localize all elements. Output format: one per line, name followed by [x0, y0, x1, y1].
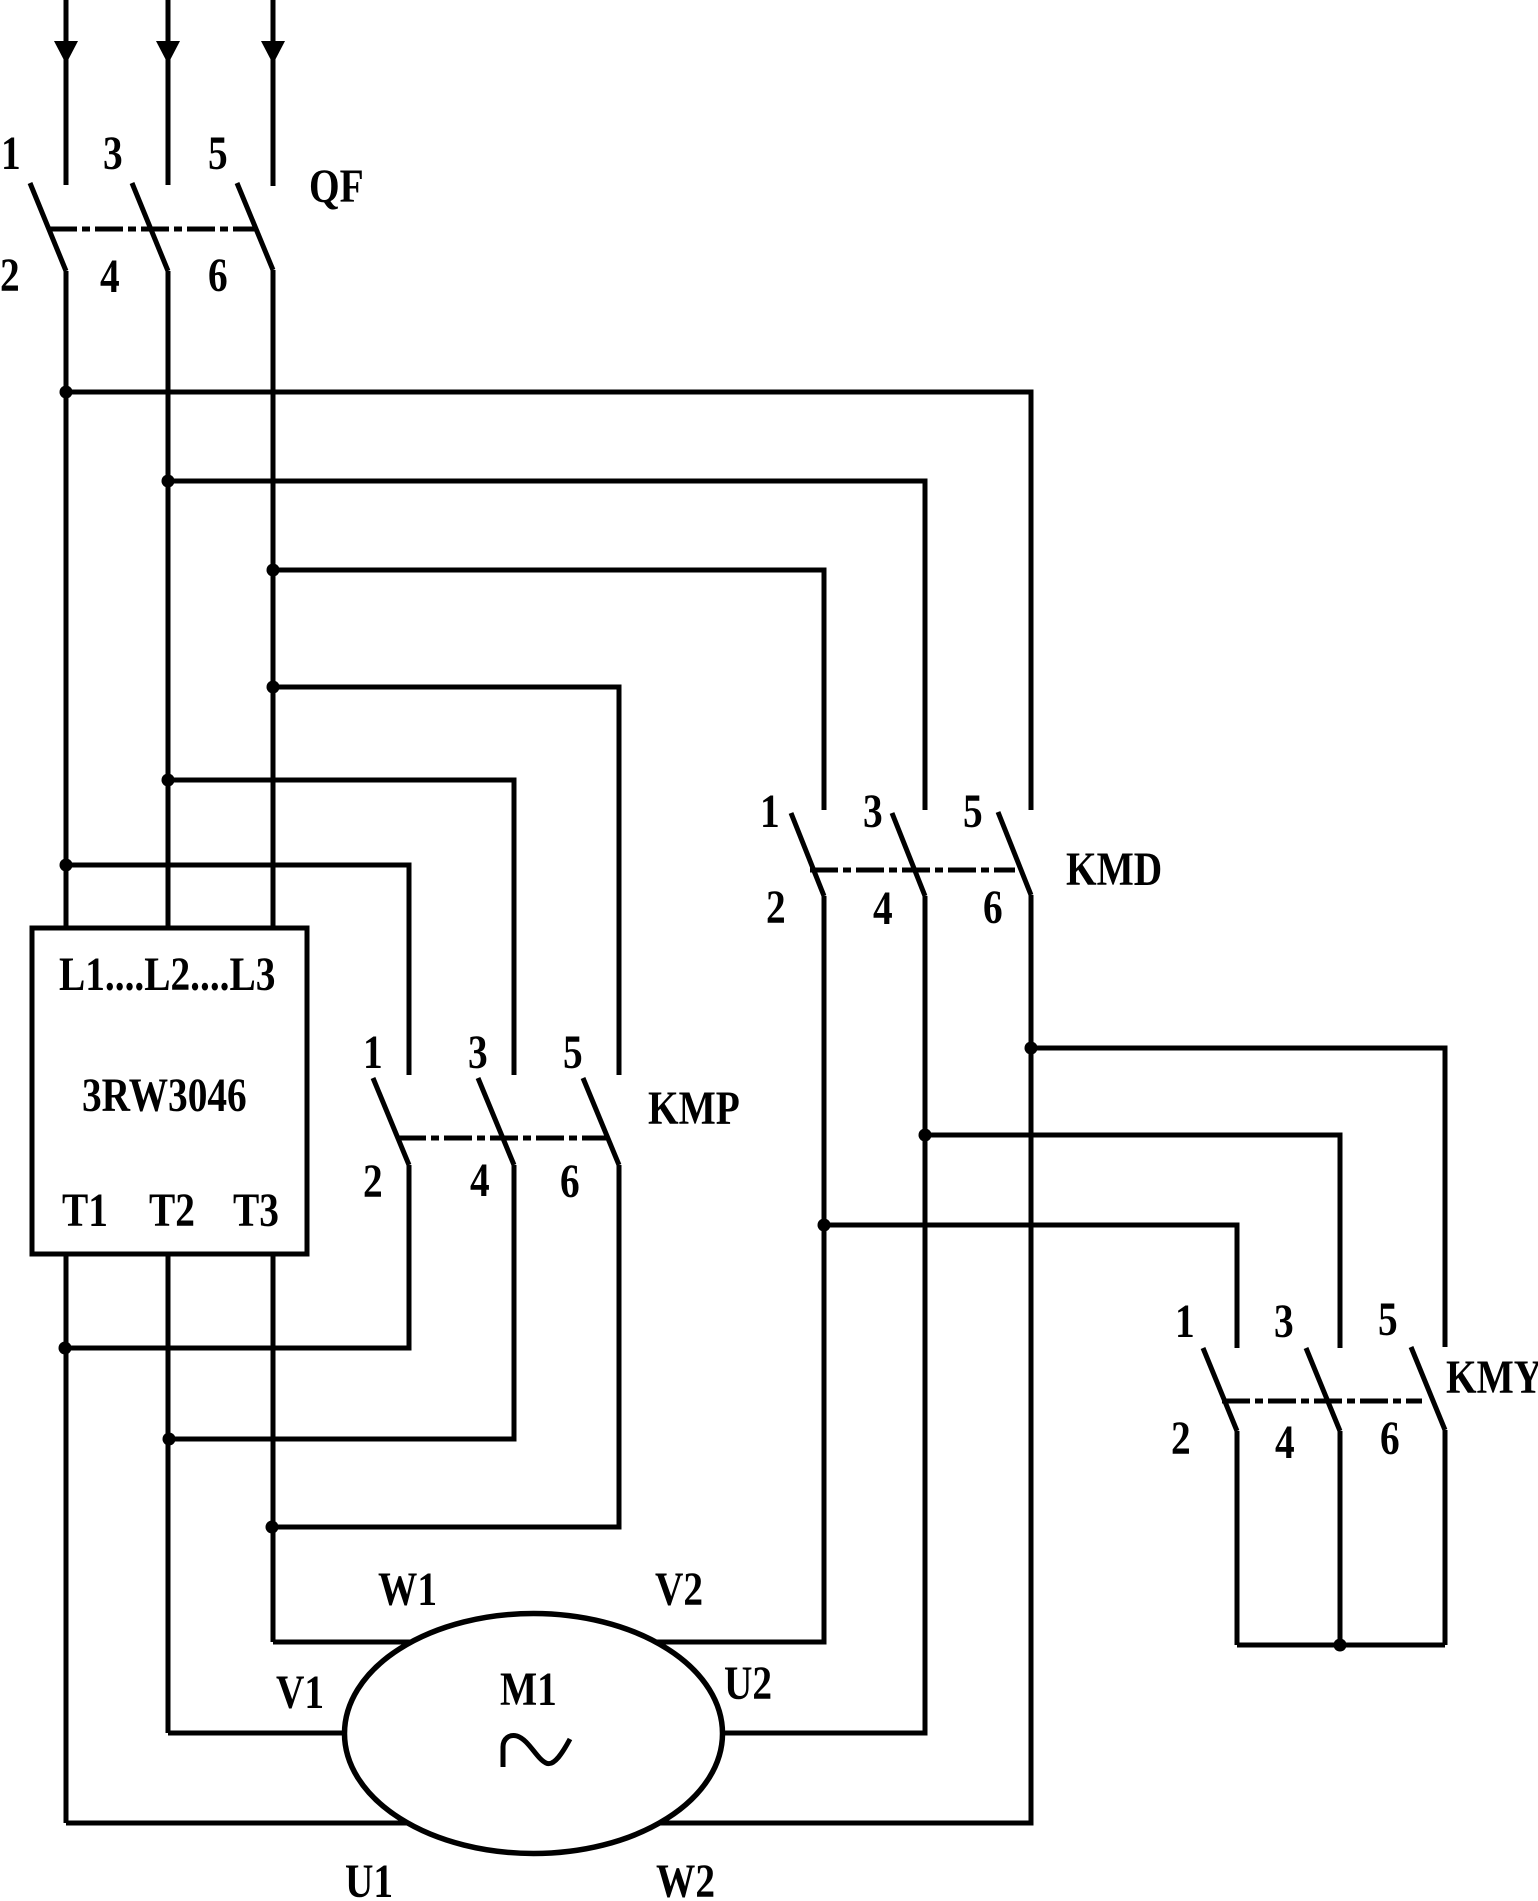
svg-text:M1: M1 [500, 1663, 557, 1715]
svg-text:KMY: KMY [1446, 1351, 1538, 1403]
wire phase L1 incoming feeder [64, 0, 69, 185]
node KMY star point junction [1334, 1639, 1347, 1652]
wire KMP pole 1 output to T1 bus [66, 1165, 409, 1348]
node junction L3 to KMP [267, 681, 280, 694]
wire KMD pole 2 output to motor U2 [168, 896, 925, 1733]
wire bus L2 below QF [166, 271, 171, 928]
contactor KMY pole 1 blade [1203, 1348, 1237, 1431]
node junction KMD2 to KMY2 [919, 1129, 932, 1142]
svg-text:3: 3 [1274, 1295, 1294, 1347]
wire bus L3 below QF [271, 270, 276, 928]
arrow phase L2 [156, 41, 180, 64]
wire T1 bus below box to motor U1 row [64, 1254, 69, 1823]
wire branch L3 to KMP pole 3 [273, 687, 619, 1075]
svg-text:5: 5 [1378, 1293, 1398, 1345]
contactor KMY pole 3 blade [1411, 1347, 1445, 1430]
arrow phase L3 [261, 41, 285, 64]
wire branch L1 to KMP pole 1 [66, 865, 409, 1075]
contactor KMY pole 2 blade [1306, 1348, 1340, 1431]
wire motor row V1-U2 [168, 1731, 925, 1736]
node junction L3 branch [267, 564, 280, 577]
wire KMY pole 3 to star point [1443, 1430, 1448, 1645]
svg-text:1: 1 [363, 1026, 383, 1078]
svg-text:QF: QF [309, 160, 364, 212]
svg-text:U2: U2 [724, 1657, 772, 1709]
arrow phase L1 [54, 41, 78, 64]
svg-text:2: 2 [1171, 1412, 1191, 1464]
svg-text:2: 2 [766, 881, 786, 933]
svg-text:1: 1 [1, 127, 21, 179]
wire phase L2 incoming feeder [166, 0, 171, 185]
wire bus L1 below QF [64, 271, 69, 928]
svg-text:4: 4 [470, 1154, 490, 1206]
svg-text:V1: V1 [276, 1666, 324, 1718]
svg-text:W2: W2 [656, 1855, 715, 1901]
svg-text:1: 1 [760, 785, 780, 837]
svg-text:5: 5 [563, 1026, 583, 1078]
wire KMD3 branch to KMY pole 3 [1031, 1048, 1445, 1347]
node junction L2 to KMP [162, 774, 175, 787]
node junction T2 to KMP output [163, 1433, 176, 1446]
svg-text:2: 2 [0, 249, 20, 301]
svg-text:3: 3 [468, 1026, 488, 1078]
wire KMY pole 1 to star point [1235, 1431, 1240, 1645]
svg-text:V2: V2 [655, 1563, 703, 1615]
contactor KMP pole 2 blade [478, 1078, 514, 1165]
contactor KMD pole 2 blade [892, 813, 925, 896]
svg-text:W1: W1 [378, 1563, 437, 1615]
svg-text:6: 6 [560, 1155, 580, 1207]
motor M1 body ellipse [345, 1614, 723, 1854]
breaker QF pole 3 blade [237, 183, 273, 270]
wire KMD pole 1 output to motor V2 [273, 896, 824, 1642]
wire branch L3 to KMD pole 1 [273, 570, 824, 810]
contactor KMD linkage dash-dot [810, 868, 1015, 873]
motor AC sine symbol [503, 1736, 570, 1767]
svg-text:3: 3 [103, 127, 123, 179]
breaker QF linkage dash-dot [49, 227, 257, 232]
soft starter U1 3RW3046 box [32, 928, 307, 1254]
svg-text:T1: T1 [62, 1184, 108, 1236]
wire KMP pole 3 output to T3 bus [273, 1165, 619, 1527]
svg-text:4: 4 [100, 250, 120, 302]
svg-text:KMD: KMD [1066, 843, 1162, 895]
wire T2 bus below box to motor V1 row [166, 1254, 171, 1733]
wire phase L3 incoming feeder [271, 0, 276, 186]
wire KMD2 branch to KMY pole 2 [925, 1135, 1340, 1348]
wire KMP pole 2 output to T2 bus [168, 1165, 514, 1439]
wire motor row U1-W2 [66, 1821, 1031, 1826]
wire KMD1 branch to KMY pole 1 [824, 1225, 1237, 1348]
wire branch L2 to KMD pole 2 [168, 481, 925, 810]
svg-text:4: 4 [873, 882, 893, 934]
node junction KMD1 to KMY1 [818, 1219, 831, 1232]
node junction L2 branch [162, 475, 175, 488]
svg-text:L1....L2....L3: L1....L2....L3 [59, 948, 275, 1000]
svg-text:6: 6 [983, 881, 1003, 933]
wire branch L2 to KMP pole 2 [168, 780, 514, 1075]
svg-text:3RW3046: 3RW3046 [82, 1069, 247, 1121]
svg-text:6: 6 [1380, 1412, 1400, 1464]
contactor KMD pole 1 blade [791, 813, 824, 896]
wire KMY star point bar [1237, 1643, 1445, 1648]
contactor KMP linkage dash-dot [398, 1136, 608, 1141]
svg-text:2: 2 [363, 1155, 383, 1207]
svg-text:T3: T3 [233, 1184, 279, 1236]
contactor KMP pole 3 blade [583, 1078, 619, 1165]
contactor KMD pole 3 blade [998, 812, 1031, 895]
svg-text:6: 6 [208, 249, 228, 301]
wire motor row W1-V2 [273, 1640, 824, 1645]
svg-text:1: 1 [1175, 1295, 1195, 1347]
svg-text:4: 4 [1275, 1416, 1295, 1468]
node junction L1 to KMP [60, 859, 73, 872]
contactor KMY linkage dash-dot [1222, 1399, 1422, 1404]
svg-text:5: 5 [208, 127, 228, 179]
svg-text:5: 5 [963, 785, 983, 837]
node junction KMD3 to KMY3 [1025, 1042, 1038, 1055]
svg-text:T2: T2 [149, 1184, 195, 1236]
node junction T3 to KMP output [266, 1521, 279, 1534]
svg-text:3: 3 [863, 785, 883, 837]
svg-text:U1: U1 [345, 1855, 393, 1901]
wire KMY pole 2 to star point [1338, 1431, 1343, 1645]
node junction T1 to KMP output [59, 1342, 72, 1355]
breaker QF pole 2 blade [132, 183, 168, 271]
wire branch L1 to KMD pole 3 [66, 392, 1031, 810]
node junction L1 branch [60, 386, 73, 399]
wire KMD pole 3 output to motor W2 row [66, 895, 1031, 1823]
contactor KMP pole 1 blade [373, 1078, 409, 1165]
wire T3 bus below box to motor W1 row [271, 1254, 276, 1642]
svg-text:KMP: KMP [648, 1082, 740, 1134]
breaker QF pole 1 blade [30, 183, 66, 271]
